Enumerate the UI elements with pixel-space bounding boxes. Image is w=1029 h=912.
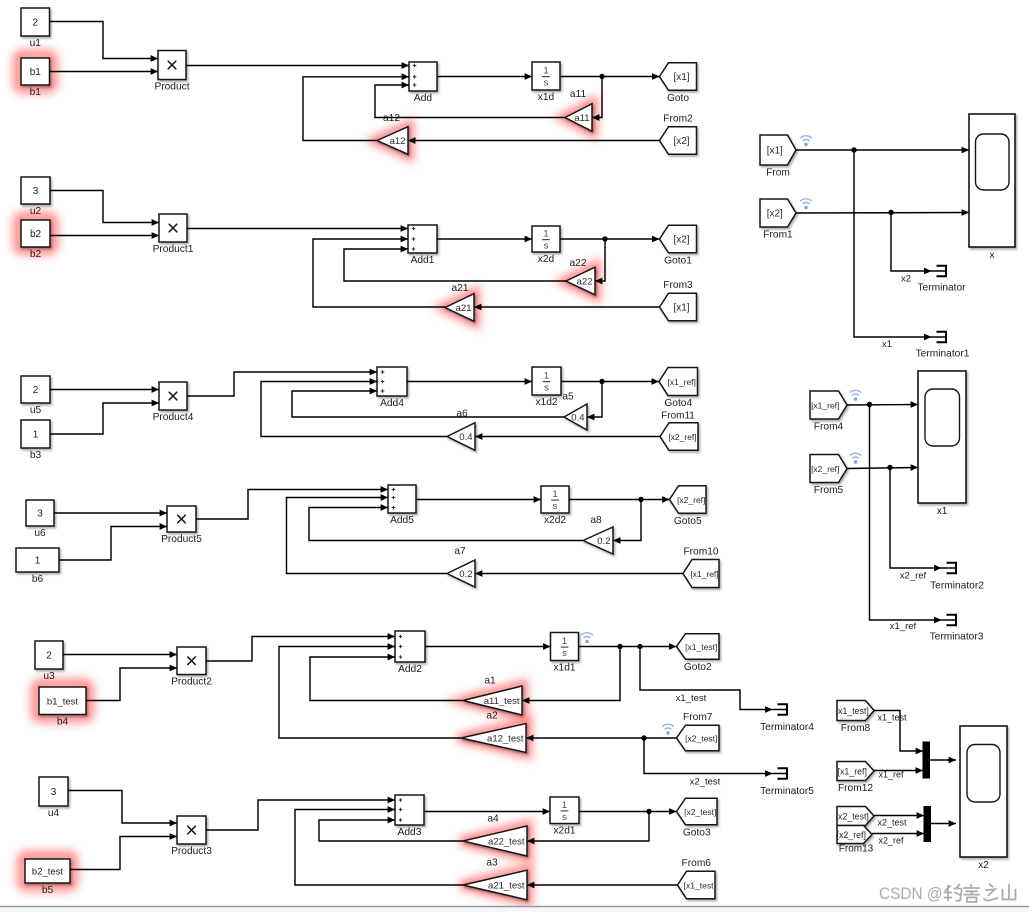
from tag From6 [x1_test] <box>678 858 716 899</box>
branch wire x1_ref to Terminator3 <box>870 405 939 621</box>
wire label x2_ref <box>900 571 927 582</box>
svg-text:u3: u3 <box>43 671 55 682</box>
svg-text:Goto5: Goto5 <box>674 516 702 527</box>
integrator x2d2 <box>541 486 569 526</box>
svg-text:a2: a2 <box>486 711 498 722</box>
sum block Add2 <box>395 631 425 675</box>
svg-text:s: s <box>544 383 549 394</box>
svg-text:1: 1 <box>33 430 39 441</box>
wire Add5 to integrator x2d2 <box>416 496 541 503</box>
wire a4 to Add3 input 3 <box>319 817 463 841</box>
goto tag Goto [x1] <box>660 63 697 104</box>
wire u2 to Product1 input 1 <box>50 191 159 226</box>
wire Product1 to Add1 input 1 <box>187 225 408 232</box>
svg-text:a8: a8 <box>590 515 602 526</box>
wire From13 x2_test to Mux1 input 1 <box>874 812 924 819</box>
from tag From2 [x2] <box>660 114 697 155</box>
wire a1 to Add2 input 3 <box>310 654 463 701</box>
svg-text:x1_ref: x1_ref <box>890 621 917 632</box>
gain a1 a11_test (highlighted) <box>463 676 522 716</box>
svg-text:[x1_test]: [x1_test] <box>836 706 869 716</box>
branch wire to gain a4 <box>527 812 649 845</box>
wire b2 to Product1 input 2 <box>50 232 159 239</box>
junction on x1d output <box>599 74 604 79</box>
from tag From3 [x1] <box>660 280 697 321</box>
wire x2d1 to Goto3 tag <box>579 808 677 815</box>
wire a22 to Add1 input 3 <box>344 246 566 281</box>
wire Product to Add input 1 <box>186 62 409 69</box>
sum block Add1 <box>408 225 437 266</box>
wire a7 to Add5 input 2 <box>287 494 448 573</box>
svg-text:Add2: Add2 <box>398 664 422 675</box>
terminator Terminator1 <box>916 332 970 360</box>
svg-text:a4: a4 <box>487 814 499 825</box>
wire From2 to gain a12 <box>408 137 660 144</box>
wire a5 to Add4 input 3 <box>292 388 564 417</box>
svg-text:x1d: x1d <box>538 92 555 103</box>
svg-text:b4: b4 <box>57 716 69 727</box>
svg-text:1: 1 <box>562 636 567 647</box>
product block Product3 <box>171 816 212 857</box>
goto tag Goto2 [x1_test] <box>677 634 720 673</box>
constant u3 <box>35 641 63 682</box>
sum block Add5 <box>388 485 416 526</box>
svg-text:Add5: Add5 <box>390 515 414 526</box>
svg-text:Product: Product <box>154 81 189 92</box>
from tag From8 [x1_test] <box>836 701 874 735</box>
logging badge on From4 <box>850 390 862 401</box>
svg-text:u2: u2 <box>30 206 42 217</box>
svg-text:b3: b3 <box>30 450 42 461</box>
wire label x2_test <box>690 777 721 788</box>
junction on x2d output <box>602 236 607 241</box>
constant u6 <box>26 500 54 539</box>
svg-text:[x2_ref]: [x2_ref] <box>668 432 696 442</box>
gain a6 value 0.4 <box>447 409 475 451</box>
svg-text:0.4: 0.4 <box>571 412 584 423</box>
svg-text:[x2_ref]: [x2_ref] <box>811 464 839 474</box>
svg-text:1: 1 <box>35 556 41 567</box>
scope block x1 <box>918 371 966 517</box>
wire From5 to scope x1 input 2 <box>847 464 918 471</box>
goto tag Goto5 [x2_ref] <box>670 486 707 527</box>
terminator Terminator <box>917 266 966 294</box>
wire Product2 to Add2 input 1 <box>206 633 395 661</box>
goto tag Goto4 [x1_ref] <box>659 368 698 410</box>
wire Add4 to integrator x1d2 <box>407 378 532 385</box>
svg-text:a6: a6 <box>456 409 468 420</box>
svg-text:x1_test: x1_test <box>877 713 907 723</box>
bottom scrollbar strip <box>0 907 1029 912</box>
svg-text:[x1]: [x1] <box>767 145 783 156</box>
svg-text:b1: b1 <box>30 87 42 98</box>
wire u4 to Product3 input 1 <box>68 791 177 827</box>
wire label x1_ref <box>890 621 917 632</box>
constant b5 b2_test (highlighted) <box>25 859 70 896</box>
gain a3 a21_test (highlighted) <box>463 858 527 900</box>
svg-text:Add4: Add4 <box>380 398 404 409</box>
gain a12 (highlighted) <box>377 113 408 154</box>
wire label x2 <box>901 274 911 285</box>
wire a12 to Add input 2 <box>303 73 409 140</box>
wire Add3 to integrator x2d1 <box>424 808 550 815</box>
svg-text:s: s <box>544 241 549 252</box>
svg-text:a11: a11 <box>570 89 587 100</box>
from tag From7 [x2_test] <box>677 712 720 751</box>
product block Product2 <box>171 647 212 687</box>
wire x1d1 to Goto2 tag <box>579 643 677 650</box>
terminator Terminator3 <box>930 615 984 643</box>
svg-text:b1_test: b1_test <box>47 696 79 707</box>
logging badge on From7 <box>662 724 674 735</box>
wire u6 to Product5 input 1 <box>54 510 167 517</box>
svg-text:Goto4: Goto4 <box>664 398 692 409</box>
constant u5 <box>21 376 50 416</box>
svg-text:a21: a21 <box>456 303 472 314</box>
product block Product <box>154 51 189 93</box>
branch wire to gain a8 <box>613 500 641 544</box>
svg-text:a12: a12 <box>383 113 400 124</box>
wire Mux to scope x2 input 1 <box>930 757 957 764</box>
svg-text:a7: a7 <box>454 546 466 557</box>
wire x1d2 to Goto4 tag <box>561 378 659 385</box>
mux Mux1 (x2 signals) <box>924 807 931 842</box>
svg-text:Product1: Product1 <box>153 244 194 255</box>
svg-text:a1: a1 <box>484 676 496 687</box>
wire From to scope x input 1 <box>796 147 969 154</box>
wire From8 to Mux input 1 <box>874 711 923 755</box>
branch wire x1 to Terminator1 <box>854 150 928 337</box>
wire x2d2 to Goto5 tag <box>569 496 670 503</box>
svg-text:2: 2 <box>33 385 39 396</box>
wire a8 to Add5 input 3 <box>309 504 583 540</box>
svg-text:x: x <box>990 250 995 261</box>
svg-text:1: 1 <box>543 66 548 77</box>
wire Product5 to Add5 input 1 <box>196 486 388 519</box>
svg-text:a21_test: a21_test <box>488 880 525 891</box>
wire x1d to Goto tag <box>560 73 660 80</box>
junction 2 on x1d1 output <box>637 644 642 649</box>
svg-text:From12: From12 <box>838 783 873 794</box>
junction on From5 output <box>887 465 892 470</box>
wire b6 to Product5 input 2 <box>59 523 167 560</box>
branch wire to Terminator5 <box>644 738 769 774</box>
branch wire to gain a1 <box>522 647 620 704</box>
logging badge on From1 <box>800 199 812 210</box>
gain a2 a12_test (highlighted) <box>461 711 526 753</box>
svg-text:s: s <box>553 501 558 512</box>
from tag From1 [x2] <box>760 199 796 241</box>
svg-text:Terminator4: Terminator4 <box>760 722 814 733</box>
branch wire to gain a22 <box>595 239 605 284</box>
svg-text:[x1]: [x1] <box>673 72 689 83</box>
svg-text:Product2: Product2 <box>171 676 212 687</box>
junction on From4 output <box>867 402 872 407</box>
branch wire x2 to Terminator <box>891 213 928 272</box>
label From13 <box>839 844 874 855</box>
svg-text:Terminator1: Terminator1 <box>916 349 970 360</box>
svg-text:From7: From7 <box>683 712 713 723</box>
svg-text:Terminator2: Terminator2 <box>930 581 984 592</box>
wire Add1 to integrator x2d <box>437 236 532 243</box>
svg-text:1: 1 <box>552 489 557 500</box>
terminator Terminator2 <box>930 563 984 592</box>
svg-text:x2: x2 <box>901 274 911 285</box>
from tag From13 [x2_ref] <box>837 826 872 844</box>
wire label x1_test <box>676 693 707 704</box>
svg-text:Product5: Product5 <box>161 534 202 545</box>
wire From1 to scope x input 2 <box>796 209 969 216</box>
constant u2 <box>21 177 50 217</box>
goto tag Goto3 [x2_test] <box>677 798 718 838</box>
wire label x1_test <box>877 713 907 723</box>
svg-text:[x1_ref]: [x1_ref] <box>690 569 718 579</box>
svg-text:a21: a21 <box>452 283 469 294</box>
integrator x1d1 <box>551 633 579 674</box>
constant b3 <box>21 420 50 461</box>
svg-text:u5: u5 <box>30 405 42 416</box>
terminator Terminator4 <box>760 704 814 733</box>
svg-text:3: 3 <box>33 186 39 197</box>
svg-text:a12_test: a12_test <box>487 733 524 744</box>
sum block Add <box>409 62 437 104</box>
highlight glow layer <box>17 54 597 902</box>
svg-text:[x2_test]: [x2_test] <box>684 807 716 817</box>
wire From4 to scope x1 input 1 <box>847 401 918 408</box>
logging badge on From <box>800 136 812 147</box>
svg-text:[x1_test]: [x1_test] <box>685 642 717 652</box>
from tag From13 [x2_test] <box>836 807 874 826</box>
svg-text:[x2]: [x2] <box>767 208 783 219</box>
svg-text:[x2_ref]: [x2_ref] <box>837 830 866 840</box>
svg-text:0.2: 0.2 <box>597 536 610 547</box>
wire u3 to Product2 input 1 <box>63 651 177 658</box>
wire Add to integrator x1d <box>437 73 532 80</box>
svg-text:3: 3 <box>51 787 57 798</box>
svg-text:[x1_ref]: [x1_ref] <box>811 400 839 410</box>
logging badge on From5 <box>850 453 862 464</box>
wire b5 to Product3 input 2 <box>70 833 177 869</box>
product block Product5 <box>161 506 202 545</box>
wire a2 to Add2 input 2 <box>279 643 461 738</box>
gain a21 (highlighted) <box>445 283 474 321</box>
svg-text:Goto3: Goto3 <box>683 827 711 838</box>
gain a7 value 0.2 <box>447 546 475 587</box>
svg-text:From1: From1 <box>763 230 793 241</box>
svg-text:s: s <box>544 78 549 89</box>
svg-text:0.4: 0.4 <box>459 432 472 443</box>
wire From13 x2_ref to Mux1 input 2 <box>872 830 924 837</box>
gain a11 (highlighted) <box>565 89 592 131</box>
constant b6 <box>16 548 59 585</box>
svg-text:[x1_test]: [x1_test] <box>684 880 716 890</box>
wire a6 to Add4 input 2 <box>261 378 447 436</box>
svg-text:From3: From3 <box>663 280 693 291</box>
svg-text:x2: x2 <box>978 860 989 871</box>
svg-text:From8: From8 <box>841 723 871 734</box>
svg-text:From10: From10 <box>683 547 718 558</box>
svg-text:[x2_ref]: [x2_ref] <box>677 495 705 505</box>
svg-text:From13: From13 <box>839 844 874 855</box>
branch wire to Terminator4 <box>640 647 769 710</box>
svg-text:From4: From4 <box>814 422 844 433</box>
svg-text:2: 2 <box>32 18 38 29</box>
junction on From1 output <box>888 210 893 215</box>
wire a21 to Add1 input 2 <box>313 236 445 307</box>
svg-text:x1d1: x1d1 <box>553 662 575 673</box>
svg-text:s: s <box>562 648 567 659</box>
watermark CSDN <box>879 884 1016 903</box>
svg-text:b2: b2 <box>30 229 42 240</box>
svg-text:1: 1 <box>543 229 548 240</box>
svg-text:[x2]: [x2] <box>673 136 689 147</box>
svg-text:b2: b2 <box>30 249 42 260</box>
svg-text:x2_ref: x2_ref <box>878 836 904 846</box>
junction 1 on x1d1 output <box>617 644 622 649</box>
gain a4 a22_test (highlighted) <box>463 814 527 857</box>
svg-text:2: 2 <box>46 651 52 662</box>
constant b2 (highlighted) <box>21 220 50 260</box>
wire Mux1 to scope x2 input 2 <box>931 820 957 827</box>
svg-text:CSDN @: CSDN @ <box>879 884 943 903</box>
branch wire to gain a11 <box>592 77 602 121</box>
svg-text:u4: u4 <box>48 808 60 819</box>
svg-text:Product4: Product4 <box>153 412 194 423</box>
svg-text:x1_test: x1_test <box>676 693 707 704</box>
svg-text:0.2: 0.2 <box>459 569 472 580</box>
svg-text:Terminator3: Terminator3 <box>930 632 984 643</box>
svg-text:x2d2: x2d2 <box>544 515 566 526</box>
integrator x2d <box>532 226 560 265</box>
wire From6 to gain a3 <box>527 882 678 889</box>
goto tag Goto1 [x2] <box>660 225 697 266</box>
svg-text:[x1]: [x1] <box>673 302 689 313</box>
wire b4 to Product2 input 2 <box>86 665 177 701</box>
svg-text:a5: a5 <box>562 392 574 403</box>
svg-text:From2: From2 <box>663 114 693 125</box>
wire label x2_ref <box>878 836 904 846</box>
svg-text:s: s <box>562 812 567 823</box>
label From11 <box>661 411 695 422</box>
wire From10 to gain a7 <box>475 570 683 577</box>
wire From12 to Mux input 2 <box>874 767 923 774</box>
from tag From4 [x1_ref] <box>810 391 847 433</box>
svg-text:Terminator5: Terminator5 <box>760 786 814 797</box>
gain a8 value 0.2 <box>583 515 613 554</box>
svg-text:x1: x1 <box>882 339 892 350</box>
svg-text:Goto2: Goto2 <box>684 662 712 673</box>
wire Product4 to Add4 input 1 <box>187 369 377 396</box>
sum block Add4 <box>377 367 407 409</box>
from tag From [x1] <box>760 135 796 179</box>
wire label x1_ref <box>878 770 904 780</box>
svg-text:a22: a22 <box>577 276 593 287</box>
svg-text:a11: a11 <box>574 113 589 124</box>
svg-text:x1: x1 <box>937 506 948 517</box>
wire x2d to Goto1 tag <box>560 236 660 243</box>
from tag From5 [x2_ref] <box>810 455 847 497</box>
integrator x1d2 <box>532 367 561 408</box>
svg-text:x1d2: x1d2 <box>535 397 557 408</box>
wire From11 to gain a6 <box>475 433 660 440</box>
junction on x1d2 output <box>599 379 604 384</box>
svg-text:x2_test: x2_test <box>877 818 907 828</box>
wire label x2_test <box>877 818 907 828</box>
terminator Terminator5 <box>760 768 814 797</box>
wire u5 to Product4 input 1 <box>50 386 159 393</box>
integrator x2d1 <box>550 797 579 836</box>
svg-text:u1: u1 <box>30 38 42 49</box>
wire From3 to gain a21 <box>474 304 660 311</box>
gain a5 value 0.4 <box>562 392 587 431</box>
svg-text:Goto1: Goto1 <box>664 255 692 266</box>
svg-text:Terminator: Terminator <box>917 283 966 294</box>
svg-text:x2_ref: x2_ref <box>900 571 927 582</box>
wire u1 to Product input 1 <box>50 22 159 62</box>
svg-text:[x1_ref]: [x1_ref] <box>668 377 696 387</box>
constant u1 <box>21 8 50 49</box>
wire b1 to Product input 2 <box>50 68 159 75</box>
from tag From12 [x1_ref] <box>837 762 874 795</box>
product block Product4 <box>153 382 194 423</box>
svg-text:b5: b5 <box>42 885 54 896</box>
from tag From11 [x2_ref] <box>660 423 698 451</box>
svg-text:a12: a12 <box>390 136 406 147</box>
wire b3 to Product4 input 2 <box>50 400 159 434</box>
svg-text:u6: u6 <box>34 528 46 539</box>
svg-text:Product3: Product3 <box>171 846 212 857</box>
from tag From10 [x1_ref] <box>683 547 719 588</box>
constant b4 b1_test (highlighted) <box>39 687 86 727</box>
junction on From output <box>851 147 856 152</box>
svg-text:Add3: Add3 <box>398 827 422 838</box>
svg-text:x2d: x2d <box>538 254 555 265</box>
svg-text:[x2]: [x2] <box>673 234 689 245</box>
sum block Add3 <box>395 795 424 838</box>
mux Mux (x1 signals) <box>923 742 930 778</box>
svg-text:x2d1: x2d1 <box>553 825 575 836</box>
integrator x1d <box>532 62 560 103</box>
wire a11 to Add input 3 <box>375 82 565 118</box>
wire From7 to gain a2 <box>526 735 677 742</box>
svg-text:[x2_test]: [x2_test] <box>685 733 717 743</box>
wire a3 to Add3 input 2 <box>295 806 463 885</box>
svg-text:[x2_test]: [x2_test] <box>836 811 869 821</box>
svg-text:3: 3 <box>37 509 43 520</box>
svg-text:b2_test: b2_test <box>32 867 64 878</box>
junction on x2d1 output <box>646 809 651 814</box>
svg-text:1: 1 <box>544 371 549 382</box>
svg-text:b6: b6 <box>32 574 44 585</box>
svg-text:a22_test: a22_test <box>488 836 525 847</box>
svg-text:1: 1 <box>562 800 567 811</box>
svg-text:b1: b1 <box>30 67 42 78</box>
svg-text:Add1: Add1 <box>411 255 435 266</box>
svg-text:Goto: Goto <box>667 93 689 104</box>
wire Product3 to Add3 input 1 <box>206 797 395 830</box>
logging badge on x1d1 output <box>581 633 593 644</box>
svg-text:a11_test: a11_test <box>484 696 520 707</box>
scope block x2 <box>960 726 1007 871</box>
svg-text:a3: a3 <box>486 858 498 869</box>
junction on x2d2 output <box>638 497 643 502</box>
svg-text:[x1_ref]: [x1_ref] <box>838 766 867 776</box>
branch wire to gain a5 <box>587 382 602 421</box>
svg-text:x2_test: x2_test <box>690 777 721 788</box>
svg-text:a22: a22 <box>570 258 587 269</box>
svg-text:From11: From11 <box>661 411 695 422</box>
branch wire x2_ref to Terminator2 <box>890 468 938 569</box>
